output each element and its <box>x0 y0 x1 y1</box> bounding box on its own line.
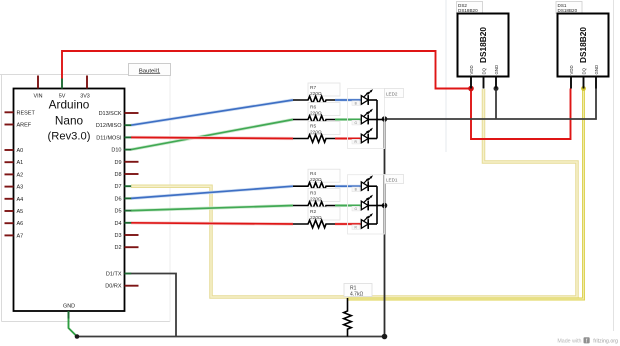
resistor R4 220 ohm <box>293 169 340 190</box>
Arduino Nano U1 body <box>14 89 125 312</box>
svg-text:R4: R4 <box>310 171 316 177</box>
Arduino GND pin <box>68 311 70 319</box>
svg-text:R3: R3 <box>310 190 316 196</box>
svg-text:D3: D3 <box>114 233 121 239</box>
svg-text:D10: D10 <box>111 148 121 154</box>
svg-text:R7: R7 <box>310 85 316 91</box>
svg-text:D5: D5 <box>114 209 121 215</box>
svg-text:A6: A6 <box>17 221 24 227</box>
svg-text:VIN: VIN <box>34 94 43 100</box>
wire D4 to R2 (red) <box>131 223 293 224</box>
grid line vertical x613 <box>613 0 615 331</box>
resistor R2 220 ohm <box>293 207 340 228</box>
svg-text:GND: GND <box>594 65 599 75</box>
svg-text:R5: R5 <box>310 123 316 129</box>
svg-text:D8: D8 <box>114 172 121 178</box>
wire D1/TX to GND bus (gray) <box>131 274 176 337</box>
svg-text:4.7kΩ: 4.7kΩ <box>350 292 363 298</box>
temperature sensor DS2 DS18B20 <box>457 2 509 89</box>
wire LED common vertical <box>384 119 386 337</box>
wire DS2 VDD to DS1 VDD (red) <box>471 89 571 140</box>
svg-text:D13/SCK: D13/SCK <box>99 111 122 117</box>
svg-text:B: B <box>355 188 357 192</box>
junction GND bus right <box>382 334 388 340</box>
wire 5V to DS2 VDD (red) <box>62 51 471 89</box>
svg-text:Arduino: Arduino <box>49 98 90 112</box>
svg-text:D11/MOSI: D11/MOSI <box>96 135 122 141</box>
resistor R5 220 ohm <box>293 122 340 143</box>
resistor R7 220 ohm <box>293 83 340 104</box>
junction DS2 GND <box>494 86 499 91</box>
svg-text:5V: 5V <box>59 94 66 100</box>
svg-text:LED1: LED1 <box>386 178 398 183</box>
svg-text:DS18B20: DS18B20 <box>478 27 488 63</box>
wire R5 to LED2 (red) <box>335 137 361 140</box>
Arduino right pins <box>125 113 139 286</box>
grid line vertical x446 <box>445 0 447 152</box>
svg-text:DS2: DS2 <box>458 3 467 8</box>
temperature sensor DS1 DS18B20 <box>556 2 609 89</box>
svg-text:D1/TX: D1/TX <box>106 272 122 278</box>
wire R6 to LED2 (green) <box>335 118 361 121</box>
junction DS1 DQ <box>581 86 586 91</box>
svg-text:GND: GND <box>63 304 75 310</box>
svg-text:A1: A1 <box>17 160 24 166</box>
resistor R3 220 ohm <box>293 189 340 210</box>
svg-text:D9: D9 <box>114 160 121 166</box>
svg-text:DS18B20: DS18B20 <box>578 27 588 63</box>
wire D6 to R4 (blue) <box>131 186 293 198</box>
resistor R6 220 ohm <box>293 103 340 124</box>
svg-text:Bauteil1: Bauteil1 <box>139 68 160 74</box>
svg-text:D6: D6 <box>114 196 121 202</box>
svg-text:A3: A3 <box>17 185 24 191</box>
LED2 RGB led group <box>348 89 404 149</box>
junction LED1 cathode node <box>382 203 388 209</box>
svg-text:DQ: DQ <box>481 67 486 74</box>
junction LED2 cathode node <box>382 116 388 122</box>
wire R2 to LED1 (red) <box>335 223 361 226</box>
watermark fritzing <box>557 337 618 344</box>
wire GND bottom bus (gray) <box>77 336 385 338</box>
svg-text:VDD: VDD <box>469 65 474 74</box>
wire R4 to LED1 (blue) <box>335 185 361 188</box>
svg-text:B: B <box>355 102 357 106</box>
svg-text:RESET: RESET <box>17 110 36 116</box>
svg-text:fritzing.org: fritzing.org <box>593 338 618 344</box>
svg-text:D2: D2 <box>114 245 121 251</box>
selection box around Arduino <box>0 75 170 322</box>
svg-text:DS1: DS1 <box>558 3 567 8</box>
svg-text:A7: A7 <box>17 233 24 239</box>
svg-text:A2: A2 <box>17 172 24 178</box>
svg-text:AREF: AREF <box>17 123 32 129</box>
wire GND bus top (gray) <box>385 89 597 120</box>
svg-text:A0: A0 <box>17 148 24 154</box>
svg-text:A5: A5 <box>17 209 24 215</box>
svg-text:DS18B20: DS18B20 <box>458 8 478 13</box>
wire DS1 DQ to R1 (yellow) <box>348 89 584 299</box>
svg-text:LED2: LED2 <box>386 92 398 97</box>
wire 1-wire bus (D7 to DS2 DQ, cream) <box>131 89 577 297</box>
junction GND bus left <box>75 334 80 339</box>
wire D10 to R6 (green) <box>131 120 293 150</box>
Arduino top pins VIN 5V 3V3 <box>38 76 87 89</box>
wire D11 to R5 (red) <box>131 137 293 138</box>
svg-text:D12/MISO: D12/MISO <box>96 123 122 129</box>
svg-text:A4: A4 <box>17 197 24 203</box>
svg-text:DQ: DQ <box>581 67 586 74</box>
svg-text:VDD: VDD <box>569 65 574 74</box>
junction DS2 VDD <box>468 86 474 92</box>
LED1 RGB led group <box>348 175 404 235</box>
svg-text:Nano: Nano <box>55 114 84 128</box>
svg-text:R6: R6 <box>310 104 316 110</box>
Arduino left pins (unconnected) <box>5 112 14 235</box>
wire R7 to LED2 (blue) <box>335 99 361 102</box>
wire Arduino GND (green) <box>69 311 78 337</box>
svg-text:D0/RX: D0/RX <box>105 284 122 290</box>
svg-text:GND: GND <box>494 65 499 75</box>
svg-text:DS18B20: DS18B20 <box>558 8 578 13</box>
wire R3 to LED1 (green) <box>335 204 361 207</box>
label Bauteil1 <box>129 64 171 76</box>
svg-text:D4: D4 <box>114 221 121 227</box>
svg-text:3V3: 3V3 <box>80 94 90 100</box>
wire D12 to R7 (blue) <box>131 100 293 125</box>
svg-text:R2: R2 <box>310 209 316 215</box>
svg-text:Made with: Made with <box>557 338 581 344</box>
wire D5 to R3 (green) <box>131 206 293 211</box>
svg-text:D7: D7 <box>114 184 121 190</box>
resistor R1 4.7k ohm <box>344 284 372 337</box>
svg-text:(Rev3.0): (Rev3.0) <box>48 131 91 143</box>
